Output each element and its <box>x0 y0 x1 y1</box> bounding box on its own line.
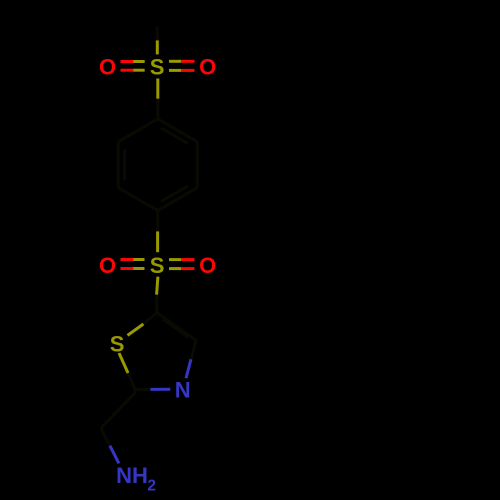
bond C(benzene)-S(low), C half (near-black) <box>156 211 159 232</box>
bond S(top)-C(benzene), S-colored half <box>156 79 159 99</box>
bond CH2-NH2, C half (near-black) <box>101 428 110 446</box>
bond S(low)-C5, C half (near-black) <box>155 295 158 313</box>
benzene edge B upper-right-C lower-right (carbon, near-black) <box>196 142 199 188</box>
S=O top-left bar, O half <box>121 69 134 72</box>
thiazole C2=N3, C half (near-black) <box>133 388 150 391</box>
S=O top-left bar, S half <box>133 60 145 63</box>
svg-text:O: O <box>199 55 216 80</box>
S=O top-right bar, O half <box>181 69 194 72</box>
thiazole C4=C5 main (carbon, near-black) <box>157 313 196 341</box>
thiazole bond N3-C4, N-colored half <box>186 359 191 378</box>
S=O low-left bar, O half <box>121 267 134 270</box>
S=O low-right bar, S half <box>169 258 181 261</box>
thiazole S1-C2, C half (near-black) <box>128 373 136 392</box>
bond CH3-S(sulfonyl top), S-colored half <box>156 40 159 54</box>
S=O low-right bar, S half <box>169 267 181 270</box>
benzene inner double-bond line (carbon, near-black) <box>123 149 126 180</box>
bond CH3-S top, C half (near-black) <box>156 26 159 40</box>
benzene inner double-bond line (carbon, near-black) <box>161 128 188 144</box>
S=O top-left bar, S half <box>133 69 145 72</box>
S=O low-left bar, O half <box>121 258 134 261</box>
bond C(benzene)-S(sulfonyl low), S-colored half <box>156 231 159 252</box>
bond CH2-NH2, N-colored half <box>110 446 119 464</box>
bond C2-CH2 (carbon, near-black) <box>101 392 136 428</box>
benzene edge C lower-right-D bottom (carbon, near-black) <box>158 188 198 211</box>
S=O low-right bar, O half <box>181 258 194 261</box>
S=O low-left bar, S half <box>133 267 144 270</box>
S=O low-left bar, S half <box>133 258 144 261</box>
thiazole C4=C5 inner line (carbon, near-black) <box>163 319 188 337</box>
benzene inner double-bond line (carbon, near-black) <box>161 186 188 202</box>
S=O top-right bar, S half <box>169 60 181 63</box>
benzene edge E lower-left-F upper-left (carbon, near-black) <box>117 142 120 188</box>
svg-text:S: S <box>110 331 125 356</box>
thiazole C5-S1, C half (near-black) <box>143 313 157 324</box>
S=O top-left bar, O half <box>121 60 134 63</box>
benzene edge F upper-left-A top (carbon, near-black) <box>118 119 158 142</box>
svg-text:O: O <box>99 55 116 80</box>
benzene edge D bottom-E lower-left (carbon, near-black) <box>118 188 157 211</box>
thiazole bond C5-S1, S-colored half <box>128 324 144 335</box>
thiazole bond C2=N3, N-colored half <box>150 388 170 391</box>
benzene edge A top-B upper-right (carbon, near-black) <box>158 119 198 142</box>
thiazole bond S1-C2, S-colored half <box>119 353 128 373</box>
S=O low-right bar, O half <box>181 267 194 270</box>
svg-text:S: S <box>150 55 165 80</box>
S=O top-right bar, O half <box>181 60 194 63</box>
svg-text:S: S <box>150 253 165 278</box>
svg-text:O: O <box>99 253 116 278</box>
svg-text:O: O <box>199 253 216 278</box>
thiazole N3-C4, C half (near-black) <box>191 340 196 359</box>
bond S(top)-C(benzene), C half (near-black) <box>156 99 159 119</box>
S=O top-right bar, S half <box>169 69 181 72</box>
bond S(low)-C5(thiazole), S-colored half <box>157 277 158 295</box>
svg-text:N: N <box>175 378 191 403</box>
